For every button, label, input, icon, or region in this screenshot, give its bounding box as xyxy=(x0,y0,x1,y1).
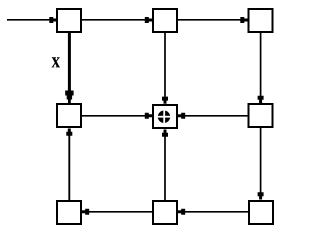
node TR (top-right square) xyxy=(249,9,273,32)
label x xyxy=(52,57,60,67)
node BM (bottom-middle square) xyxy=(153,201,177,224)
wire ML to center C xyxy=(82,113,152,119)
wire TR down to MR xyxy=(258,33,264,103)
node BR (bottom-right square) xyxy=(249,201,273,224)
node BL (bottom-left square) xyxy=(57,201,81,224)
wire TL to TM xyxy=(82,17,152,23)
node ML (middle-left square) xyxy=(57,104,81,127)
node C (center square) xyxy=(153,105,177,128)
wire BM up to center C xyxy=(162,130,168,201)
node TM (top-middle square) xyxy=(153,9,177,32)
wire TM down to center C xyxy=(162,33,168,104)
wire MR to center C xyxy=(178,113,248,119)
wire TM to TR xyxy=(178,17,248,23)
node TL (top-left square) xyxy=(57,9,81,32)
wire BM to BL xyxy=(82,209,152,215)
thick wire TL down to ML (weight x) xyxy=(65,33,73,103)
wire BL up to ML xyxy=(66,129,72,201)
wire BR to BM xyxy=(178,209,248,215)
wire MR down to BR xyxy=(258,128,264,200)
adder symbol: circled plus inside node C xyxy=(158,110,171,123)
wire input arrow into node TL xyxy=(7,17,57,23)
node MR (middle-right square) xyxy=(249,104,273,127)
